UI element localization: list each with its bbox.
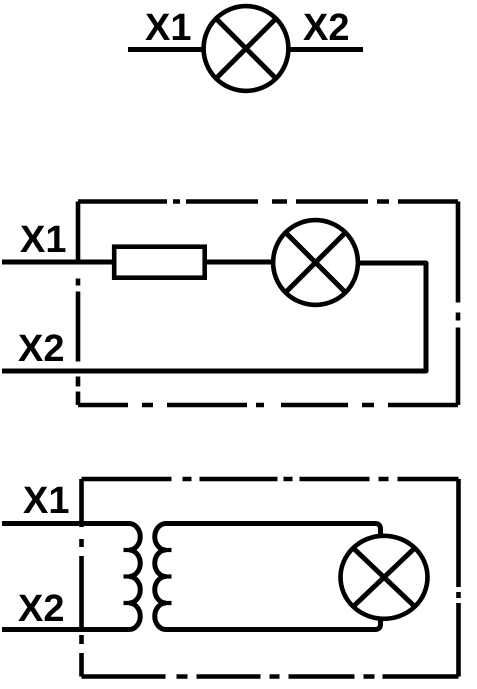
svg-text:X1: X1 xyxy=(145,7,191,49)
svg-text:X2: X2 xyxy=(18,588,64,630)
svg-text:X2: X2 xyxy=(303,7,349,49)
resistor (ballast) xyxy=(114,247,205,278)
wire X1 to resistor (middle) xyxy=(2,260,114,265)
transformer secondary winding cusp ticks xyxy=(166,550,172,603)
svg-text:X1: X1 xyxy=(23,480,69,522)
transformer primary winding cusp ticks xyxy=(124,550,130,603)
lamp (top) xyxy=(204,6,289,91)
transformer secondary winding xyxy=(155,524,172,630)
wire lamp to X2 (top) xyxy=(289,47,363,52)
transformer primary winding with X1/X2 wires xyxy=(2,524,140,630)
svg-text:X1: X1 xyxy=(20,219,66,261)
node X2 label (middle) xyxy=(18,328,64,370)
node X1 label (top) xyxy=(145,7,191,49)
node X1 label (bottom) xyxy=(23,480,69,522)
node X1 label (middle) xyxy=(20,219,66,261)
wire secondary bottom to lamp (bottom) xyxy=(166,619,381,630)
enclosure boundary (bottom, dash-dot) xyxy=(82,479,459,677)
node X2 label (top) xyxy=(303,7,349,49)
wire X1 to lamp (top) xyxy=(128,47,204,52)
lamp (middle) xyxy=(273,220,358,305)
wire secondary top to lamp (bottom) xyxy=(166,524,381,537)
wire resistor to lamp (middle) xyxy=(205,260,273,265)
svg-text:X2: X2 xyxy=(18,328,64,370)
wire lamp to X2 return (middle, right side down and back) xyxy=(2,263,426,371)
enclosure boundary (middle, dash-dot) xyxy=(78,202,458,406)
node X2 label (bottom) xyxy=(18,588,64,630)
lamp (bottom) xyxy=(341,536,428,619)
